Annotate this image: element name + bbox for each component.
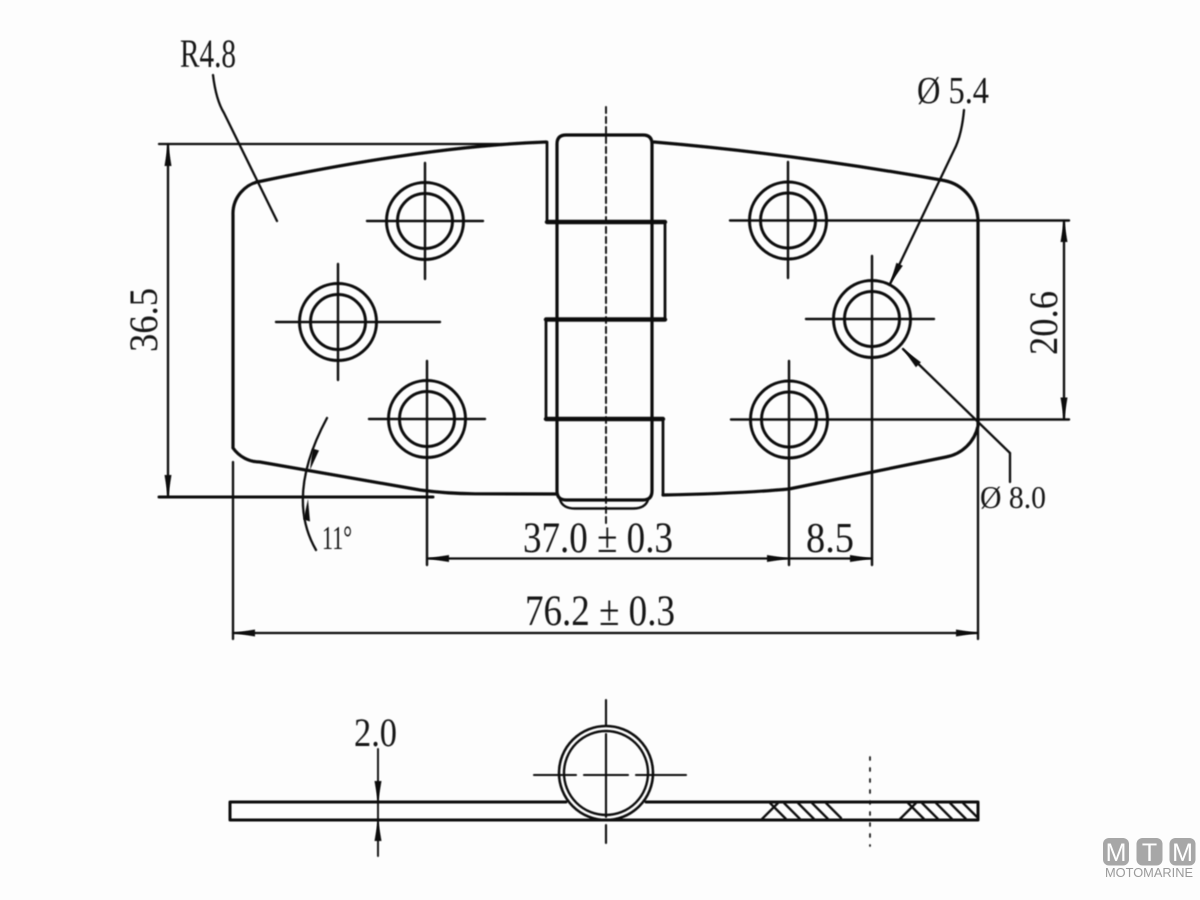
svg-text:M: M: [1106, 839, 1127, 867]
svg-text:Ø 5.4: Ø 5.4: [917, 70, 989, 112]
svg-text:20.6: 20.6: [1021, 291, 1066, 355]
svg-text:11°: 11°: [322, 520, 352, 557]
svg-text:37.0 ± 0.3: 37.0 ± 0.3: [523, 515, 673, 562]
svg-text:T: T: [1142, 839, 1157, 867]
svg-text:2.0: 2.0: [354, 710, 397, 755]
svg-text:MOTOMARINE: MOTOMARINE: [1105, 865, 1193, 880]
svg-text:36.5: 36.5: [121, 288, 166, 352]
svg-text:76.2 ± 0.3: 76.2 ± 0.3: [525, 588, 675, 635]
svg-text:R4.8: R4.8: [180, 31, 236, 76]
svg-text:M: M: [1172, 839, 1193, 867]
svg-text:Ø 8.0: Ø 8.0: [980, 479, 1046, 515]
svg-text:8.5: 8.5: [806, 516, 854, 562]
